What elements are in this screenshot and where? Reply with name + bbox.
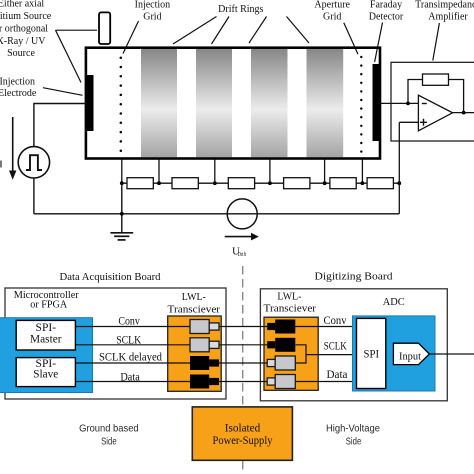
- svg-text:LWL-: LWL-: [277, 291, 301, 303]
- drift voltage arrow: [225, 236, 252, 238]
- SPI block (ADC): [357, 318, 386, 388]
- label: Faraday Detector: [369, 0, 404, 23]
- svg-text:Ground based: Ground based: [79, 424, 139, 435]
- svg-text:SPI-: SPI-: [36, 322, 57, 334]
- svg-text:Drift: Drift: [238, 251, 247, 258]
- pointer line Aperture Grid: [344, 23, 358, 55]
- LWL transceiver block (right): [264, 317, 318, 390]
- svg-text:Isolated: Isolated: [225, 423, 261, 435]
- ADC block: [353, 316, 436, 391]
- svg-text:Either axial: Either axial: [0, 0, 44, 10]
- svg-text:Conv: Conv: [324, 315, 347, 327]
- svg-text:Injection: Injection: [135, 0, 171, 10]
- svg-text:Grid: Grid: [143, 11, 161, 22]
- label: source text block: [0, 0, 52, 59]
- tap wire ring2: [214, 160, 216, 184]
- arrow: injection voltage direction: [12, 117, 14, 171]
- svg-text:Faraday: Faraday: [370, 0, 402, 11]
- feedback wire right: [449, 80, 464, 113]
- wire: electrode to pulse source: [34, 104, 86, 147]
- optical RX connector SCLK delayed (black): [190, 356, 219, 370]
- tap wire injection grid: [121, 160, 123, 184]
- digitizing board outline: [260, 289, 447, 401]
- SPI slave block: [16, 358, 75, 387]
- bottom bus wire: [34, 213, 399, 215]
- op-amp minus: [422, 103, 427, 105]
- pointer line to injection electrode area: [56, 30, 82, 82]
- op-amp shield box: [391, 62, 474, 141]
- svg-text:Master: Master: [30, 334, 62, 346]
- svg-text:Transciever: Transciever: [264, 303, 317, 315]
- drift ring 4: [307, 49, 344, 157]
- injection electrode: [86, 75, 94, 131]
- pointer line Faraday Detector: [375, 23, 383, 63]
- faraday detector plate: [373, 64, 380, 141]
- resistor R6: [367, 178, 393, 189]
- pointer line to source: [56, 29, 98, 31]
- op-amp U1: [418, 95, 452, 131]
- isolation barrier (dashed): [242, 266, 244, 470]
- optical TX connector Data (gray, right): [267, 375, 295, 389]
- pointer lines Drift Rings: [173, 17, 217, 45]
- tap wire ring1: [158, 160, 160, 184]
- svg-text:Digitizing Board: Digitizing Board: [315, 271, 394, 283]
- drift ring 3: [251, 49, 288, 157]
- feedback wire left: [408, 80, 423, 104]
- feedback resistor Rf: [423, 74, 449, 85]
- svg-text:Injection: Injection: [0, 76, 35, 87]
- wire SCLK delayed: [75, 362, 267, 364]
- wire: faraday detector to op-amp inverting input: [378, 102, 418, 104]
- drift ring 1: [141, 49, 177, 157]
- right bus wire (op-amp + input down to bottom bus): [398, 122, 400, 214]
- svg-text:Transimpedance: Transimpedance: [415, 0, 474, 11]
- label: Injection Grid: [135, 0, 171, 22]
- svg-text:Tritium Source: Tritium Source: [0, 11, 52, 22]
- input arrow block: [393, 343, 429, 364]
- output wire: [453, 112, 474, 114]
- SPI master block: [16, 320, 75, 350]
- svg-text:Input: Input: [399, 352, 421, 363]
- resistor R1: [127, 178, 153, 189]
- junction dots resistor row: [120, 181, 401, 215]
- SCLK jog net: [296, 345, 357, 363]
- label: Transimpedance Amplifier: [415, 0, 474, 23]
- optical RX connector SCLK (black, right): [267, 338, 295, 352]
- svg-text:Slave: Slave: [33, 369, 58, 381]
- svg-text:Data Acquisition Board: Data Acquisition Board: [60, 271, 161, 283]
- svg-text:Transciever: Transciever: [168, 303, 221, 315]
- svg-text:or orthogonal: or orthogonal: [0, 23, 48, 34]
- junction dot inverting input: [406, 102, 410, 106]
- svg-text:or FPGA: or FPGA: [30, 298, 67, 310]
- resistor R2: [172, 178, 198, 189]
- drift tube body: [86, 48, 380, 159]
- resistor R5: [330, 178, 356, 189]
- svg-text:ADC: ADC: [383, 296, 405, 308]
- svg-text:High-Voltage: High-Voltage: [326, 424, 380, 435]
- svg-text:LWL-: LWL-: [182, 291, 206, 303]
- DAQ board outline: [5, 288, 226, 399]
- pointer line Injection Grid: [123, 21, 139, 54]
- wire Data: [75, 381, 356, 383]
- svg-text:X-Ray / UV: X-Ray / UV: [0, 36, 46, 47]
- svg-text:Side: Side: [101, 436, 117, 447]
- wire SCLK: [75, 344, 267, 346]
- resistor R4: [284, 178, 310, 189]
- injection grid (dotted): [120, 56, 123, 152]
- svg-text:SCLK delayed: SCLK delayed: [99, 351, 162, 363]
- drift voltage source: [227, 199, 257, 229]
- svg-text:Detector: Detector: [369, 12, 404, 23]
- svg-text:Grid: Grid: [323, 12, 341, 23]
- wire: non-inverting input: [399, 121, 418, 123]
- svg-text:Drift Rings: Drift Rings: [218, 4, 263, 15]
- optical TX connector Conv (gray): [190, 320, 219, 334]
- resistor row wire: [122, 182, 400, 184]
- optical TX connector SCLK (gray): [190, 338, 219, 352]
- svg-text:Side: Side: [346, 436, 362, 447]
- pulse source V1: [18, 147, 49, 178]
- wire Conv: [75, 326, 356, 328]
- svg-text:Power-Supply: Power-Supply: [213, 435, 273, 447]
- svg-text:SPI: SPI: [364, 349, 380, 361]
- isolated power supply block: [192, 407, 292, 460]
- svg-text:Data: Data: [327, 369, 348, 381]
- optical TX connector SCLK delayed (gray, right): [267, 356, 295, 370]
- resistor R3: [228, 178, 254, 189]
- label: Aperture Grid: [314, 0, 350, 23]
- aperture grid (dotted): [360, 56, 362, 153]
- svg-text:SCLK: SCLK: [324, 340, 348, 352]
- pointer line Injection Electrode: [43, 88, 83, 96]
- drift ring 2: [196, 49, 232, 157]
- LWL transceiver block (left): [168, 316, 222, 391]
- label: Injection Electrode: [0, 76, 37, 99]
- pulse glyph: [26, 155, 42, 170]
- ionisation source housing: [99, 12, 110, 44]
- microcontroller block: [0, 318, 93, 393]
- ground wire: [121, 183, 123, 232]
- svg-text:Amplifier: Amplifier: [428, 12, 468, 23]
- ground symbol: [110, 233, 133, 240]
- tap wire ring3: [269, 160, 271, 184]
- wire: pulse source to bottom bus: [33, 178, 35, 214]
- tap wire aperture grid: [361, 160, 363, 184]
- pointer line Transimpedance Amplifier: [433, 23, 440, 61]
- junction dot output: [462, 111, 466, 115]
- svg-text:Source: Source: [7, 48, 35, 59]
- optical RX connector Data (black): [190, 375, 219, 389]
- tap wire ring4: [324, 160, 326, 184]
- ADC output wire: [429, 353, 474, 355]
- svg-text:Aperture: Aperture: [314, 0, 350, 10]
- op-amp plus: [420, 119, 427, 126]
- svg-text:Electrode: Electrode: [0, 88, 37, 99]
- clipped label fragment at left edge: [0, 161, 2, 168]
- optical RX connector Conv (black, right): [267, 320, 295, 334]
